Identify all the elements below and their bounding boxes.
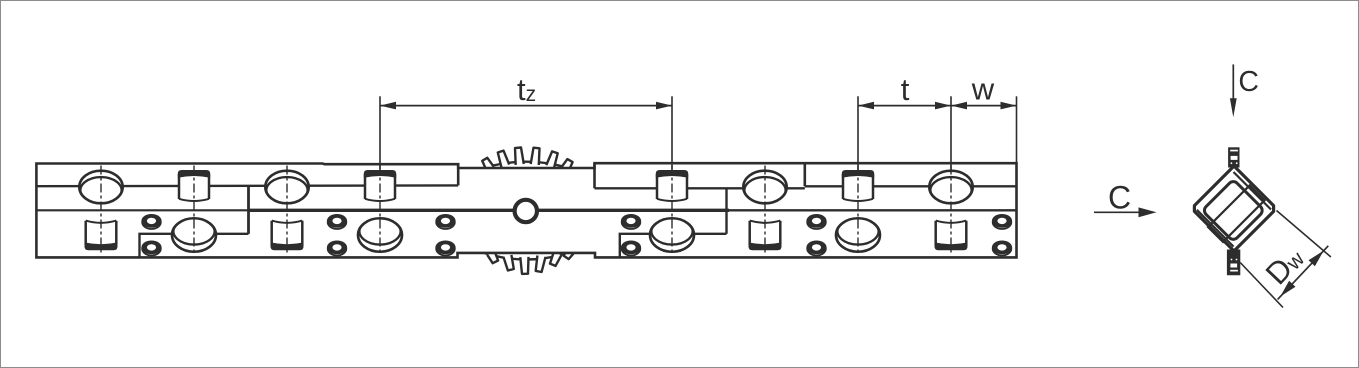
extension line t left <box>857 96 859 170</box>
dimension line w <box>951 105 1017 107</box>
bottom pin 2 <box>272 221 303 249</box>
detail outer plate diamond <box>1194 166 1273 251</box>
top roller 3 <box>743 171 786 204</box>
top pin 1 <box>179 171 209 201</box>
extension line t/w shared <box>950 96 952 170</box>
detail tab top <box>1228 147 1239 167</box>
bottom pin 3 <box>750 221 781 249</box>
view arrow C top <box>1232 64 1234 100</box>
svg-text:Dw: Dw <box>1259 239 1311 291</box>
sprocket teeth bottom <box>487 251 498 263</box>
rivet rings 4 <box>622 216 641 229</box>
rivet rings 6 <box>993 216 1012 229</box>
extension line tz left <box>379 96 381 169</box>
detail chamfer line NE <box>1234 172 1272 210</box>
extension line w right <box>1016 96 1018 163</box>
rivet rings 5 <box>807 216 826 229</box>
bottom roller 4 <box>836 218 880 252</box>
rivet rings 1 <box>142 216 161 229</box>
dimension line t <box>858 105 951 107</box>
joint centerlines <box>100 166 102 256</box>
sprocket root arc top <box>477 162 575 171</box>
chain outline <box>36 163 1016 257</box>
bottom roller 1 <box>172 218 216 252</box>
seam line thick middle <box>249 209 730 212</box>
top pin 3 <box>657 171 687 201</box>
sprocket hub <box>515 200 537 222</box>
plate line y188 mid-right <box>595 187 805 189</box>
dimension line Dw <box>1278 246 1329 300</box>
top roller 1 <box>79 171 122 204</box>
chain body <box>36 163 1016 257</box>
rivet rings 3 <box>436 216 455 229</box>
top roller 4 <box>929 171 972 204</box>
svg-text:C: C <box>1108 179 1131 215</box>
plate line y186 left <box>36 184 458 187</box>
seam line thin right <box>729 209 1017 211</box>
svg-text:t: t <box>901 72 910 107</box>
detail inner bush rounded square <box>1202 179 1264 241</box>
svg-text:tz: tz <box>517 72 536 107</box>
top pin 2 <box>365 171 395 201</box>
plate edge x=804.8 <box>803 163 806 186</box>
sprocket teeth top <box>482 158 494 171</box>
svg-text:C: C <box>1238 66 1259 98</box>
detail cross plate rect <box>1208 185 1265 242</box>
dimension Dw extension line 1 <box>1277 211 1331 258</box>
plate line y186 right <box>805 185 1017 187</box>
bottom pin 1 <box>86 221 117 249</box>
seam line thin left <box>36 209 248 211</box>
dimension Dw extension line 2 <box>1240 263 1283 308</box>
plate edge x=594.5 <box>593 163 596 188</box>
sprocket root arc bottom <box>480 252 572 260</box>
rivet rings 2 <box>328 216 347 229</box>
extension line tz right <box>671 96 673 169</box>
view arrow C left <box>1094 211 1140 213</box>
plate edge x=458 <box>457 164 460 185</box>
top pin 4 <box>843 171 873 201</box>
inner plate box 1 <box>140 234 249 258</box>
top roller 2 <box>265 171 308 204</box>
bottom pin 4 <box>936 221 967 249</box>
svg-text:w: w <box>971 71 995 106</box>
detail chamfer line SW <box>1197 210 1234 247</box>
bottom roller 3 <box>650 218 694 252</box>
detail tab bottom <box>1227 250 1240 276</box>
bottom roller 2 <box>358 218 402 252</box>
dimension line tz <box>380 105 672 107</box>
inner plate box 2 <box>620 234 727 258</box>
